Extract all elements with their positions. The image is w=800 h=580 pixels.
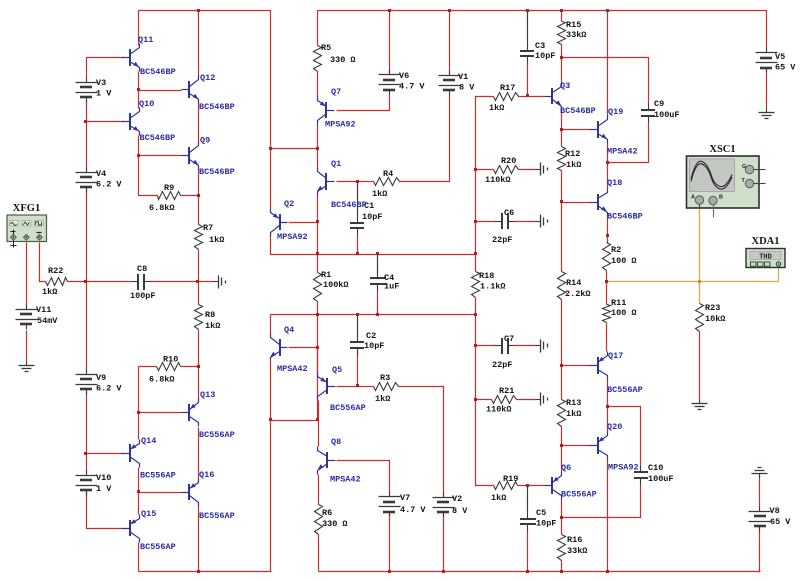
wire Q15 collector to rail [138, 543, 140, 572]
svg-text:8 V: 8 V [452, 506, 468, 516]
svg-text:BC556AP: BC556AP [140, 471, 176, 481]
resistor R8 [195, 305, 221, 332]
wire node to Q13 emitter [198, 367, 200, 400]
svg-text:R21: R21 [499, 386, 514, 396]
wire Q5 emitter up [317, 348, 319, 373]
svg-text:BC546BP: BC546BP [199, 167, 235, 177]
svg-text:XFG1: XFG1 [13, 203, 40, 214]
wire Q1 base to node [337, 181, 358, 183]
wire node to R1 top [317, 223, 319, 255]
wire C7 left [476, 345, 496, 347]
svg-text:Q11: Q11 [138, 35, 153, 45]
ground for V5 [759, 109, 775, 119]
svg-text:Q16: Q16 [199, 470, 214, 480]
svg-text:100uF: 100uF [654, 110, 680, 120]
svg-text:R4: R4 [383, 169, 393, 179]
wire R16 bottom [561, 561, 563, 572]
svg-text:BC546BP: BC546BP [140, 67, 176, 77]
wire R12 bottom [561, 171, 563, 203]
ground at C7 [536, 340, 548, 353]
svg-text:MPSA92: MPSA92 [277, 232, 308, 242]
resistor R19 [491, 474, 518, 503]
svg-text:R14: R14 [566, 278, 581, 288]
wire C6 left [476, 221, 496, 223]
wire node to Q10 base [87, 121, 124, 123]
wire V8 ground stem [759, 475, 761, 509]
svg-text:V3: V3 [96, 78, 106, 88]
transistor Q5 [318, 365, 366, 413]
wire V1 top to rail [449, 11, 451, 74]
wire node to C10 [608, 407, 641, 467]
resistor R6 [315, 505, 348, 535]
svg-text:XSC1: XSC1 [709, 144, 735, 155]
svg-text:R16: R16 [567, 535, 582, 545]
wire R19 right to node [518, 485, 528, 487]
wire C4 bottom lead [377, 291, 379, 315]
wire oscilloscope A probe wire [699, 204, 701, 282]
resistor R20 [485, 156, 519, 185]
node junction 443,571 [442, 570, 445, 573]
ground at C8 node [214, 276, 226, 289]
node junction 198.5,366.5 [197, 365, 200, 368]
wire V5 bottom to ground [766, 69, 768, 109]
resistor R23 [696, 303, 726, 332]
capacitor C2 [350, 331, 384, 356]
node junction 561,445 [560, 444, 563, 447]
distortion analyzer XDA1 [746, 236, 785, 268]
svg-text:Q20: Q20 [607, 422, 622, 432]
wire C4 top lead [377, 255, 379, 274]
svg-text:R23: R23 [705, 303, 720, 313]
svg-text:Q17: Q17 [608, 351, 623, 361]
svg-text:V7: V7 [400, 493, 410, 503]
svg-text:V9: V9 [96, 373, 106, 383]
wire bottom rail left segment [139, 571, 272, 573]
capacitor C10 [634, 463, 674, 486]
node junction 389,10.5 [388, 9, 391, 12]
wire Q14 collector to node [138, 468, 140, 493]
wire V4 bottom to input node [86, 189, 88, 282]
svg-text:Q1: Q1 [331, 159, 341, 169]
svg-text:R10: R10 [163, 355, 178, 365]
resistor R18 [472, 271, 506, 298]
wire Q6 collector to node [561, 500, 563, 518]
wire V6 top to rail [389, 11, 391, 73]
svg-text:1kΩ: 1kΩ [209, 235, 224, 245]
transistor Q19 [590, 107, 638, 157]
wire node to R2 [607, 236, 609, 243]
transistor Q9 [182, 136, 235, 178]
node junction 317.5,148.5 [316, 147, 319, 150]
wire Q17 collector to node [607, 380, 609, 407]
svg-text:22pF: 22pF [492, 235, 512, 245]
capacitor C1 [350, 201, 382, 236]
svg-text:4.7 V: 4.7 V [400, 505, 426, 515]
wire R23 to ground [699, 332, 701, 400]
node junction 198.5,10.5 [197, 9, 200, 12]
svg-text:XDA1: XDA1 [752, 236, 780, 247]
wire R13 top [561, 366, 563, 400]
wire node to Q14 emitter [138, 413, 140, 440]
svg-text:R3: R3 [380, 373, 390, 383]
wire node to Q19 base [562, 129, 590, 131]
wire C5 bottom to rail [527, 532, 529, 572]
transistor Q2 [271, 199, 308, 242]
transistor Q11 [122, 35, 176, 77]
wire node to bottom rail [270, 421, 272, 572]
node junction 561,365.5 [560, 364, 563, 367]
svg-text:C9: C9 [654, 99, 664, 109]
svg-text:10pF: 10pF [362, 212, 382, 222]
svg-text:BC556AP: BC556AP [199, 430, 235, 440]
wire XFG1 common to V11 [26, 243, 28, 307]
wire R9 right to node [181, 195, 199, 197]
resistor R16 [558, 535, 588, 561]
wire node to Q12 base [139, 90, 182, 92]
svg-text:V10: V10 [96, 473, 111, 483]
node junction 607,571 [606, 570, 609, 573]
resistor R9 [149, 183, 181, 213]
svg-text:V11: V11 [36, 305, 51, 315]
wire Q1 emitter to node [317, 196, 319, 223]
svg-text:BC556AP: BC556AP [140, 542, 176, 552]
voltage source V5 [756, 48, 797, 73]
transistor Q20 [590, 422, 639, 473]
ground at C6 [536, 215, 548, 228]
wire R2 to R11 [606, 271, 608, 305]
svg-text:10pF: 10pF [364, 341, 384, 351]
wire Q3 collector up [561, 58, 563, 83]
node junction 561,517.5 [560, 516, 563, 519]
svg-text:10kΩ: 10kΩ [705, 314, 725, 324]
ground at R21 [536, 393, 548, 406]
svg-text:4.7 V: 4.7 V [399, 82, 425, 92]
node junction 86,121.75 [84, 120, 87, 123]
svg-text:R12: R12 [565, 149, 580, 159]
wire R3 right to V2 [399, 387, 444, 495]
svg-text:R7: R7 [203, 223, 213, 233]
wire C3 top lead [527, 11, 529, 45]
node junction 86,453 [84, 452, 87, 455]
node junction 606.5,281.5 [605, 280, 608, 283]
wire R22 right to input node [68, 281, 87, 283]
svg-text:2.2kΩ: 2.2kΩ [565, 289, 591, 299]
svg-text:MPSA42: MPSA42 [277, 364, 308, 374]
voltage source V2 [433, 493, 469, 518]
svg-text:33kΩ: 33kΩ [567, 546, 587, 556]
transistor Q1 [317, 159, 366, 210]
wire R20 left [476, 169, 494, 171]
capacitor C9 [641, 99, 680, 123]
wire C8 to ground node [152, 281, 199, 283]
wire Q20 collector to rail [607, 460, 609, 572]
wire node to R4 [358, 181, 374, 183]
wire XFG1 minus to R22 [40, 243, 46, 282]
wire node to Q18 base [562, 202, 590, 204]
svg-text:10pF: 10pF [535, 51, 555, 61]
wire node to Q20 base [562, 445, 590, 447]
svg-text:BC556AP: BC556AP [561, 490, 597, 500]
wire R15 top [561, 11, 563, 22]
transistor Q12 [182, 73, 235, 112]
svg-text:Q3: Q3 [560, 81, 570, 91]
node junction 389,571 [388, 570, 391, 573]
svg-text:100uF: 100uF [648, 474, 674, 484]
node junction 449,10.5 [448, 9, 451, 12]
wire C1 bottom to mid rail [357, 236, 359, 255]
resistor R17 [489, 83, 519, 113]
wire node to V10 top [86, 454, 88, 473]
wire Q12 emitter to Q9 collector [198, 104, 200, 143]
wire Q1 collector up [317, 149, 319, 168]
voltage source V8 [749, 506, 792, 532]
wire V3 bottom to node [86, 100, 88, 122]
transistor Q3 [545, 81, 596, 116]
wire Q9 emitter to R9 node [198, 170, 200, 196]
svg-text:100 Ω: 100 Ω [611, 308, 637, 318]
svg-text:C10: C10 [648, 463, 663, 473]
svg-text:THD: THD [759, 254, 772, 262]
node junction 561,57.5 [560, 56, 563, 59]
svg-text:R15: R15 [566, 20, 581, 30]
svg-text:330 Ω: 330 Ω [322, 519, 348, 529]
wire R12 top [561, 130, 563, 147]
resistor R15 [558, 20, 587, 45]
svg-text:V2: V2 [452, 494, 462, 504]
svg-text:110kΩ: 110kΩ [485, 175, 511, 185]
node junction 475.5,345.5 [474, 344, 477, 347]
svg-text:54mV: 54mV [37, 316, 58, 326]
svg-text:BC546BP: BC546BP [560, 106, 596, 116]
svg-text:R13: R13 [566, 398, 581, 408]
wire V3 top to Q11 base [87, 58, 124, 79]
wire Q11 emitter to node [138, 72, 140, 91]
wire node to Q6 base [528, 485, 545, 487]
node junction 475.5,399 [474, 398, 477, 401]
resistor R13 [558, 398, 582, 427]
svg-text:6.8kΩ: 6.8kΩ [149, 203, 175, 213]
wire Q12 collector to rail [198, 11, 200, 77]
svg-text:BC546BP: BC546BP [199, 102, 235, 112]
svg-text:Q19: Q19 [608, 107, 623, 117]
resistor R14 [558, 272, 591, 300]
transistor Q16 [182, 470, 235, 521]
wire Q8 emitter to R6 [318, 475, 320, 505]
wire R1 to rail3 [317, 302, 319, 315]
svg-text:1kΩ: 1kΩ [491, 493, 506, 503]
svg-text:Q18: Q18 [607, 178, 622, 188]
wire R5 top [317, 11, 319, 46]
wire R8 to R10 node [198, 330, 200, 367]
node junction 317.5,420 [316, 418, 319, 421]
wire node to Q17 base [562, 365, 590, 367]
wire Q18 collector to node [607, 163, 609, 189]
svg-text:1 V: 1 V [96, 484, 112, 494]
wire ground stub [199, 281, 215, 283]
voltage source V4 [76, 168, 123, 193]
wire Q19 emitter to node [607, 144, 609, 163]
svg-text:1kΩ: 1kΩ [42, 287, 57, 297]
wire node to R3 [358, 386, 374, 388]
node junction 607,406.5 [606, 405, 609, 408]
resistor R22 [42, 266, 68, 297]
svg-text:G: G [742, 164, 746, 170]
node junction 561,10.5 [560, 9, 563, 12]
voltage source V11 [16, 305, 59, 330]
svg-text:Q13: Q13 [200, 390, 215, 400]
resistor R3 [374, 373, 399, 404]
voltage source V6 [379, 70, 426, 95]
voltage source V3 [76, 78, 113, 103]
svg-text:C5: C5 [536, 508, 546, 518]
node junction 317.5,314.5 [316, 313, 319, 316]
node junction 475.5,169 [474, 168, 477, 171]
wire C2 top lead [357, 315, 359, 337]
svg-text:MPSA42: MPSA42 [607, 147, 638, 157]
wire R18 top lead [475, 255, 477, 272]
node junction 377.5,254 [376, 252, 379, 255]
node junction 561,202 [560, 200, 563, 203]
svg-text:33kΩ: 33kΩ [566, 30, 586, 40]
node junction 475.5,254 [474, 252, 477, 255]
node junction 198,281.75 [196, 280, 199, 283]
wire R10 right to node [181, 366, 199, 368]
wire Q10 emitter to node [138, 136, 140, 156]
node junction 198.5,195.5 [197, 194, 200, 197]
svg-text:6.8kΩ: 6.8kΩ [149, 375, 175, 385]
transistor Q7 [318, 87, 356, 130]
wire output node wire [607, 281, 779, 283]
node junction 317.5,347.5 [316, 346, 319, 349]
svg-text:1kΩ: 1kΩ [205, 321, 220, 331]
node junction 475.5,314.5 [474, 313, 477, 316]
transistor Q13 [182, 390, 235, 440]
svg-text:100 Ω: 100 Ω [611, 256, 637, 266]
wire V7 bottom to rail [389, 513, 391, 572]
node junction 527.5,485.5 [526, 484, 529, 487]
svg-text:Q2: Q2 [284, 199, 294, 209]
wire node to Q14 base [87, 453, 124, 455]
svg-text:MPSA42: MPSA42 [330, 475, 361, 485]
wire rail node to Q2 emitter [270, 149, 272, 209]
node junction 317.5,254 [316, 252, 319, 255]
wire C7 right [515, 345, 537, 347]
wire C6 right [515, 221, 537, 223]
wire Q5 base to node [337, 386, 358, 388]
svg-text:V4: V4 [96, 169, 106, 179]
svg-text:R18: R18 [479, 271, 494, 281]
svg-text:V6: V6 [399, 71, 409, 81]
wire R9 node to R7 [198, 196, 200, 225]
wire R17 left [476, 97, 494, 170]
wire Q3 emitter down [561, 111, 563, 130]
svg-text:BC546BP: BC546BP [607, 212, 643, 222]
svg-text:Q10: Q10 [139, 99, 154, 109]
wire R11 to Q17 emitter [606, 323, 608, 352]
wire Q18 emitter down [607, 217, 609, 236]
svg-text:R11: R11 [611, 298, 626, 308]
node junction 357,386 [356, 384, 359, 387]
wire node to Q10 collector [138, 91, 140, 109]
wire R16 top [561, 518, 563, 535]
wire Q4 base node down [271, 348, 318, 421]
wire bias column to mid rail [475, 222, 477, 255]
svg-text:BC556AP: BC556AP [199, 511, 235, 521]
wire V2 bottom to rail [443, 514, 445, 572]
svg-text:1uF: 1uF [384, 282, 399, 292]
wire C2 bottom to node [357, 351, 359, 387]
capacitor C7 [492, 334, 515, 370]
svg-text:Q5: Q5 [332, 365, 342, 375]
svg-text:A: A [691, 195, 695, 201]
wire R15 bottom [561, 45, 563, 58]
transistor Q15 [122, 509, 176, 552]
svg-text:Q9: Q9 [200, 136, 210, 146]
svg-text:Q7: Q7 [331, 87, 341, 97]
svg-text:6.2 V: 6.2 V [96, 384, 122, 394]
svg-text:C6: C6 [504, 208, 514, 218]
wire Q16 collector to rail [198, 507, 200, 572]
wire C3 bottom [527, 64, 529, 97]
transistor Q8 [318, 437, 361, 485]
ground for V11 [19, 362, 35, 372]
wire V11 to ground [26, 331, 28, 362]
svg-text:BC546BP: BC546BP [140, 133, 176, 143]
svg-text:C8: C8 [137, 264, 147, 274]
wire R4 to V1 [400, 96, 450, 182]
wire Q13 collector to Q16 emitter [198, 428, 200, 479]
svg-text:R20: R20 [501, 156, 516, 166]
wire node to Q15 emitter [138, 493, 140, 515]
node junction 561,571 [560, 570, 563, 573]
resistor R11 [603, 298, 637, 323]
node junction 317.5,222 [316, 220, 319, 223]
wire C1 top lead [357, 182, 359, 217]
wire R1 top lead [317, 255, 319, 273]
wire V8 bottom to rail [758, 528, 760, 572]
capacitor C6 [492, 208, 515, 245]
wire V10 bottom to Q15 base [87, 492, 124, 529]
resistor R12 [558, 147, 582, 171]
node junction 357,181.5 [356, 180, 359, 183]
wire Q7 base to V6 [337, 95, 390, 111]
svg-text:R19: R19 [503, 474, 518, 484]
wire mid rail 3 [271, 314, 476, 316]
wire R23 top lead wire [699, 282, 701, 304]
wire Q19 collector to rail [607, 11, 609, 116]
wire Q4 base to node [289, 347, 318, 349]
node junction 138.5,412.5 [137, 411, 140, 414]
wire rail3 to Q4 base node [317, 315, 319, 348]
svg-text:10pF: 10pF [536, 519, 556, 529]
node junction 561,129.5 [560, 128, 563, 131]
svg-text:1kΩ: 1kΩ [372, 189, 387, 199]
wire Q5 collector to Q8 collector [318, 401, 320, 447]
voltage source V7 [379, 492, 427, 517]
svg-text:R9: R9 [164, 183, 174, 193]
wire Q2 collector to mid rail [271, 237, 476, 255]
svg-text:BC546BP: BC546BP [331, 200, 367, 210]
capacitor C3 [520, 41, 555, 64]
wire R13 bottom [561, 427, 563, 446]
svg-text:Q14: Q14 [141, 436, 156, 446]
wire bias column top [475, 170, 477, 222]
wire XDA1 input wire [778, 267, 780, 282]
resistor R21 [486, 386, 517, 415]
transistor Q4 [270, 325, 307, 374]
resistor R5 [314, 43, 356, 72]
wire node to Q13 base [139, 412, 182, 414]
